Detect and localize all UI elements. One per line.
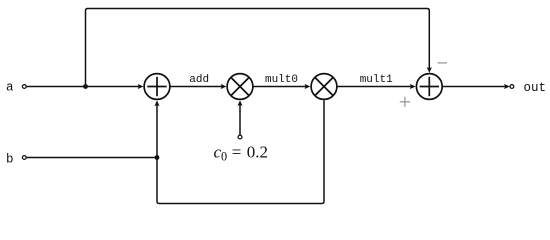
- wire feedforward a to subtractor top: [86, 9, 430, 87]
- adder add: [144, 74, 170, 100]
- multiplier mult1: [311, 74, 337, 100]
- svg-text:a: a: [6, 80, 14, 94]
- svg-text:add: add: [189, 74, 209, 86]
- output terminal out: [510, 85, 514, 89]
- svg-text:b: b: [6, 152, 14, 166]
- wire c0 to mult0: [239, 105, 241, 135]
- subtractor adder: [416, 74, 442, 100]
- multiplier mult0: [227, 74, 253, 100]
- wire b junction to adder bottom: [156, 105, 158, 158]
- minus sign label: [438, 62, 447, 64]
- constant c0 terminal: [238, 135, 242, 139]
- wire add to mult0: [170, 86, 222, 88]
- wire b to junction: [27, 157, 157, 159]
- node junction on a: [83, 84, 88, 89]
- wire mult0 to mult1: [253, 86, 306, 88]
- svg-text:mult0: mult0: [265, 74, 298, 86]
- input terminal a: [22, 85, 26, 89]
- svg-text:mult1: mult1: [360, 74, 393, 86]
- plus sign label: [400, 97, 410, 107]
- svg-text:out: out: [524, 81, 547, 95]
- wire mult1 to subtractor: [337, 86, 411, 88]
- input terminal b: [22, 156, 26, 160]
- wire b junction to mult1 bottom: [157, 100, 324, 203]
- wire subtractor to out: [442, 86, 505, 88]
- node junction on b: [155, 155, 160, 160]
- wire a to adder: [27, 86, 139, 88]
